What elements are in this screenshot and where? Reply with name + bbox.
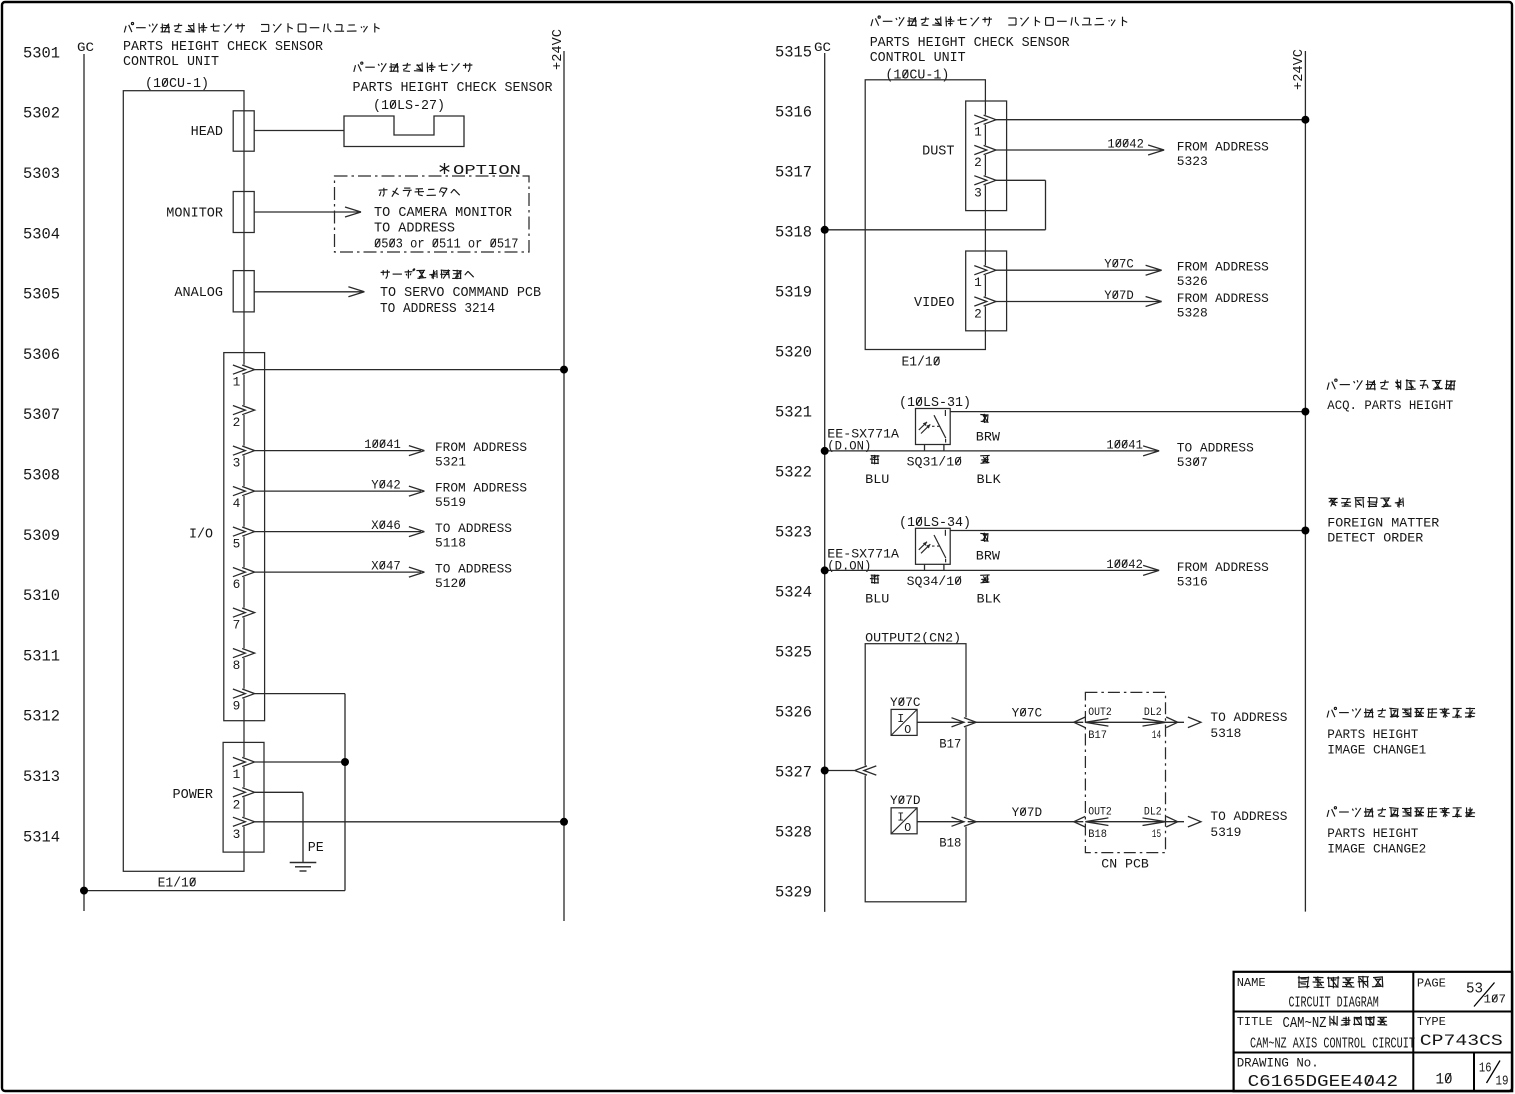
sensor 10LS-34 internal symbol — [919, 530, 946, 563]
connector I/O pin 6 chevron — [242, 567, 245, 577]
wire POWER pin3 to +24VC rail — [255, 821, 564, 823]
connector I/O pin 1 chevron — [242, 365, 245, 375]
svg-text:(D.ON): (D.ON) — [827, 559, 871, 573]
svg-text:SQ34/10: SQ34/10 — [907, 574, 963, 589]
svg-text:1: 1 — [974, 275, 982, 290]
wire Y07C inside CN PCB — [1085, 721, 1165, 723]
svg-text:0503 or 0511 or 0517: 0503 or 0511 or 0517 — [374, 238, 519, 253]
svg-text:(10CU-1): (10CU-1) — [145, 77, 209, 92]
svg-text:FROM ADDRESS: FROM ADDRESS — [1177, 260, 1269, 275]
svg-text:15: 15 — [1152, 829, 1161, 841]
svg-text:TITLE: TITLE — [1237, 1015, 1273, 1029]
svg-text:5328: 5328 — [775, 823, 812, 841]
svg-text:5314: 5314 — [23, 828, 60, 846]
connector HEAD box — [233, 111, 254, 151]
svg-text:IMAGE CHANGE1: IMAGE CHANGE1 — [1327, 743, 1426, 757]
svg-text:DETECT ORDER: DETECT ORDER — [1327, 531, 1423, 546]
connector VIDEO pin 1 chevron — [984, 265, 987, 275]
chevron Y07C at OUTPUT2 edge — [964, 717, 967, 727]
svg-text:CAM~NZ AXIS CONTROL CIRCUIT: CAM~NZ AXIS CONTROL CIRCUIT — [1250, 1037, 1415, 1053]
svg-text:BRW: BRW — [976, 431, 1001, 445]
svg-text:10041: 10041 — [1106, 438, 1143, 452]
power rail +24VC (left) vertical wire — [563, 51, 565, 921]
wire MONITOR to option box with arrowhead — [254, 211, 361, 213]
svg-text:O: O — [904, 822, 911, 835]
svg-text:PARTS HEIGHT CHECK SENSOR: PARTS HEIGHT CHECK SENSOR — [123, 40, 323, 55]
wire I/O pin1 to +24VC rail — [255, 369, 564, 371]
option label OPTION with reference-mark star — [440, 163, 450, 174]
svg-text:5321: 5321 — [435, 455, 466, 470]
svg-text:POWER: POWER — [173, 788, 214, 803]
option box Japanese text to-camera-monitor — [379, 188, 460, 197]
svg-text:DUST: DUST — [922, 145, 954, 160]
svg-text:5304: 5304 — [23, 225, 60, 243]
svg-text:B17: B17 — [1088, 730, 1107, 742]
svg-text:MONITOR: MONITOR — [166, 207, 223, 222]
right line-number column 5315-5329 — [775, 43, 812, 901]
output cell Y07C I/O box — [891, 709, 917, 735]
title block Japanese circuit diagram name — [1298, 976, 1383, 988]
svg-text:CONTROL UNIT: CONTROL UNIT — [123, 55, 219, 70]
svg-text:DRAWING No.: DRAWING No. — [1237, 1057, 1319, 1071]
power rail +24VC (right) vertical wire — [1304, 51, 1306, 912]
svg-text:2: 2 — [233, 415, 241, 430]
wire sensor 10LS-34 output signal 10042 — [825, 569, 1159, 571]
svg-text:Y07C: Y07C — [890, 696, 921, 710]
svg-text:(10CU-1): (10CU-1) — [885, 69, 949, 84]
svg-text:BRW: BRW — [976, 550, 1001, 564]
wire Y07D from I/O box through OUTPUT2 edge — [917, 821, 1083, 823]
svg-text:TO SERVO COMMAND PCB: TO SERVO COMMAND PCB — [380, 286, 541, 301]
svg-text:IMAGE CHANGE2: IMAGE CHANGE2 — [1327, 843, 1426, 857]
pcb CN PCB box (dash-dot) — [1085, 692, 1165, 852]
connector I/O pin 3 chevron — [242, 446, 245, 456]
svg-text:2: 2 — [974, 307, 982, 322]
connector ANALOG box — [233, 271, 254, 312]
svg-text:HEAD: HEAD — [191, 125, 223, 140]
svg-text:PARTS HEIGHT CHECK SENSOR: PARTS HEIGHT CHECK SENSOR — [870, 36, 1070, 51]
sensor 10LS-31 wire color label black — [980, 455, 990, 463]
svg-text:I: I — [897, 811, 904, 824]
junction node E1/10 on GC — [80, 887, 88, 895]
wire sensor 10LS-31 output signal 10041 — [825, 450, 1159, 452]
svg-text:Y07D: Y07D — [1012, 806, 1043, 820]
svg-text:5321: 5321 — [775, 403, 812, 421]
svg-text:14: 14 — [1152, 730, 1162, 742]
connector POWER pin 1 chevron — [242, 757, 245, 767]
connector DUST pin 3 chevron — [984, 175, 987, 185]
svg-text:O: O — [904, 724, 911, 737]
wire E1/10 horizontal to GC — [84, 890, 345, 892]
sensor 10LS-27 Japanese label — [354, 62, 473, 72]
svg-text:7: 7 — [233, 618, 241, 633]
svg-text:5311: 5311 — [23, 647, 60, 665]
junction node POWER pin1 / pin9 net — [341, 758, 349, 766]
svg-text:10042: 10042 — [1107, 137, 1144, 151]
svg-text:Y07D: Y07D — [890, 794, 921, 808]
svg-text:5316: 5316 — [775, 103, 812, 121]
connector I/O pin 8 chevron — [242, 648, 245, 658]
svg-text:5319: 5319 — [1210, 825, 1241, 840]
svg-text:5306: 5306 — [23, 346, 60, 364]
control unit 10CU-1 (right) outline box — [865, 80, 985, 350]
svg-text:5324: 5324 — [775, 583, 812, 601]
svg-text:5317: 5317 — [775, 163, 812, 181]
svg-text:B18: B18 — [939, 837, 961, 851]
svg-text:CIRCUIT DIAGRAM: CIRCUIT DIAGRAM — [1289, 996, 1379, 1012]
floating arrow to address (Y07D) — [1188, 816, 1201, 827]
connector DUST box — [966, 101, 1007, 211]
svg-text:107: 107 — [1484, 993, 1507, 1007]
svg-text:5318: 5318 — [775, 223, 812, 241]
svg-text:FROM ADDRESS: FROM ADDRESS — [1177, 291, 1269, 306]
wire I/O pin5 signal X046 — [255, 531, 421, 533]
svg-text:5316: 5316 — [1177, 574, 1208, 589]
junction node sensor 10LS-31 on +24VC — [1301, 408, 1309, 416]
sensor 10LS-34 body box — [916, 528, 951, 564]
title block horizontal dividers — [1234, 1011, 1513, 1013]
annotation Japanese image change (Y07D) — [1327, 807, 1475, 818]
option box (dash-dot) — [335, 176, 530, 252]
svg-text:B18: B18 — [1088, 829, 1107, 841]
svg-text:X046: X046 — [371, 519, 401, 533]
svg-text:5315: 5315 — [775, 43, 812, 61]
CN PCB exit arrows row Y07D — [1143, 818, 1166, 822]
connector DUST pin 1 chevron — [984, 115, 987, 125]
ground symbol PE — [290, 862, 317, 864]
svg-text:5322: 5322 — [775, 463, 812, 481]
wire sensor 10LS-31 brown to +24VC rail — [950, 411, 1305, 413]
wire stub Y07D after CN PCB — [1166, 821, 1185, 823]
svg-text:GC: GC — [814, 40, 831, 55]
svg-text:10: 10 — [1436, 1071, 1453, 1089]
chevron Y07D at OUTPUT2 edge — [964, 817, 967, 827]
svg-text:BLK: BLK — [977, 592, 1002, 606]
svg-text:FROM ADDRESS: FROM ADDRESS — [1177, 140, 1269, 155]
svg-text:5318: 5318 — [1210, 726, 1241, 741]
sensor 10LS-31 body box — [916, 409, 951, 445]
output cell Y07D I/O box — [891, 808, 917, 834]
svg-text:5309: 5309 — [23, 527, 60, 545]
junction node sensor 10LS-34 on GC — [821, 566, 829, 574]
sensor 10LS-34 wire color label brown — [980, 533, 988, 542]
svg-text:5313: 5313 — [23, 768, 60, 786]
svg-text:I/O: I/O — [189, 528, 213, 543]
connector DUST pin 2 chevron — [984, 145, 987, 155]
svg-text:5302: 5302 — [23, 105, 60, 123]
sensor 10LS-27 body outline — [344, 116, 464, 147]
svg-text:5301: 5301 — [23, 44, 60, 62]
title block vertical divider — [1412, 972, 1414, 1091]
net GC (left) vertical wire — [83, 54, 85, 911]
wire I/O pin6 signal X047 — [255, 571, 421, 573]
svg-text:Y07C: Y07C — [1012, 707, 1043, 721]
junction node I/O pin1 on +24VC — [560, 366, 568, 374]
svg-text:5310: 5310 — [23, 587, 60, 605]
connector POWER box — [223, 742, 264, 852]
svg-text:FROM ADDRESS: FROM ADDRESS — [1177, 560, 1269, 575]
wire POWER pin1 to E1/10 vertical — [255, 761, 345, 763]
CN PCB entry arrows row Y07C — [1074, 717, 1086, 728]
svg-text:PE: PE — [308, 841, 324, 856]
svg-text:5319: 5319 — [775, 283, 812, 301]
sensor 10LS-31 internal symbol — [919, 410, 946, 443]
wire DUST pin2 signal 10042 — [996, 149, 1164, 151]
svg-text:5328: 5328 — [1177, 306, 1208, 321]
annotation Japanese image change (Y07C) — [1327, 707, 1475, 718]
svg-text:53: 53 — [1466, 982, 1483, 998]
connector VIDEO box — [966, 251, 1007, 331]
svg-text:X047: X047 — [371, 560, 401, 574]
svg-text:BLK: BLK — [977, 473, 1002, 487]
svg-text:DL2: DL2 — [1144, 707, 1162, 719]
wire sensor 10LS-34 brown to +24VC rail — [950, 530, 1305, 532]
annotation Japanese foreign matter detect order — [1329, 497, 1404, 508]
svg-text:10042: 10042 — [1106, 558, 1143, 572]
svg-text:5303: 5303 — [23, 165, 60, 183]
svg-text:2: 2 — [233, 797, 241, 812]
svg-text:PAGE: PAGE — [1417, 977, 1446, 991]
svg-text:8: 8 — [233, 658, 241, 673]
wire I/O pin3 signal 10041 — [255, 450, 421, 452]
wire DUST pin3 to GC (row 5318) — [996, 179, 1046, 181]
svg-text:16: 16 — [1479, 1062, 1492, 1077]
svg-text:5326: 5326 — [775, 703, 812, 721]
svg-text:5308: 5308 — [23, 467, 60, 485]
sensor 10LS-34 pin stubs — [924, 564, 926, 570]
wire I/O pin4 signal Y042 — [255, 490, 421, 492]
svg-text:PARTS HEIGHT CHECK SENSOR: PARTS HEIGHT CHECK SENSOR — [353, 81, 553, 96]
title block row3 vertical divider — [1473, 1053, 1475, 1092]
svg-text:5305: 5305 — [23, 286, 60, 304]
floating arrow to address (Y07C) — [1188, 717, 1201, 728]
title block outline — [1234, 972, 1513, 1091]
sensor 10LS-31 wire color label blue — [870, 455, 880, 464]
svg-text:1: 1 — [974, 125, 982, 140]
svg-text:5323: 5323 — [775, 523, 812, 541]
svg-text:PARTS HEIGHT: PARTS HEIGHT — [1327, 827, 1418, 841]
svg-text:GC: GC — [77, 40, 94, 55]
svg-text:CN PCB: CN PCB — [1101, 857, 1149, 872]
svg-text:Y042: Y042 — [371, 479, 401, 493]
svg-text:BLU: BLU — [865, 473, 889, 487]
svg-text:B17: B17 — [939, 737, 961, 751]
wire ANALOG to servo command pcb with arrowhead — [254, 291, 364, 293]
svg-text:5: 5 — [233, 537, 241, 552]
svg-text:10041: 10041 — [364, 438, 401, 452]
svg-text:5307: 5307 — [23, 406, 60, 424]
svg-text:5118: 5118 — [435, 536, 466, 551]
svg-text:TO ADDRESS: TO ADDRESS — [435, 521, 512, 536]
junction node POWER pin3 on +24VC — [560, 818, 568, 826]
svg-text:19: 19 — [1496, 1075, 1509, 1090]
svg-text:C6165DGEE4042: C6165DGEE4042 — [1248, 1073, 1399, 1091]
svg-text:CAM~NZ: CAM~NZ — [1283, 1016, 1327, 1032]
svg-text:9: 9 — [233, 699, 241, 714]
left line-number column 5301-5314 — [23, 44, 60, 846]
junction node sensor 10LS-31 on GC — [821, 447, 829, 455]
annotation Japanese acq parts height — [1327, 379, 1456, 390]
svg-text:5307: 5307 — [1177, 455, 1208, 470]
CN PCB entry arrows row Y07D — [1074, 816, 1086, 827]
junction node DUST pin3 on GC — [821, 226, 829, 234]
svg-text:I: I — [897, 713, 904, 726]
svg-text:CP743CS: CP743CS — [1420, 1032, 1503, 1050]
svg-text:5327: 5327 — [775, 763, 812, 781]
connector MONITOR box — [233, 192, 254, 233]
svg-text:TO ADDRESS: TO ADDRESS — [1210, 809, 1287, 824]
sensor 10LS-34 wire color label blue — [870, 574, 880, 583]
svg-text:5519: 5519 — [435, 495, 466, 510]
connector I/O pin 5 chevron — [242, 527, 245, 537]
connector I/O pin 4 chevron — [242, 486, 245, 496]
svg-text:DL2: DL2 — [1144, 806, 1162, 818]
svg-text:PARTS HEIGHT: PARTS HEIGHT — [1327, 728, 1418, 742]
wire Y07C from I/O box through OUTPUT2 edge — [917, 721, 1083, 723]
svg-text:SQ31/10: SQ31/10 — [907, 454, 963, 469]
svg-text:CONTROL UNIT: CONTROL UNIT — [870, 51, 966, 66]
connector I/O box — [224, 353, 265, 721]
connector I/O pin 2 chevron — [242, 405, 245, 415]
svg-text:VIDEO: VIDEO — [914, 296, 955, 311]
wire Y07D inside CN PCB — [1085, 821, 1165, 823]
svg-text:OPTION: OPTION — [453, 164, 521, 179]
connector I/O pin 7 chevron — [242, 608, 245, 618]
sensor 10LS-31 pin stubs — [924, 445, 926, 451]
control unit 10CU-1 (left) Japanese title — [124, 23, 379, 34]
svg-text:FOREIGN MATTER: FOREIGN MATTER — [1327, 516, 1439, 531]
svg-text:ACQ. PARTS HEIGHT: ACQ. PARTS HEIGHT — [1327, 398, 1453, 413]
svg-text:OUT2: OUT2 — [1088, 806, 1112, 818]
svg-text:5323: 5323 — [1177, 154, 1208, 169]
svg-text:5325: 5325 — [775, 643, 812, 661]
junction node sensor 10LS-34 on +24VC — [1301, 527, 1309, 535]
svg-text:3: 3 — [233, 456, 241, 471]
svg-text:Y07D: Y07D — [1104, 289, 1134, 303]
connector POWER pin 3 chevron — [242, 817, 245, 827]
control unit 10CU-1 (right) Japanese title — [871, 16, 1127, 27]
svg-text:3: 3 — [974, 185, 982, 200]
svg-text:OUT2: OUT2 — [1088, 707, 1112, 719]
svg-text:1: 1 — [233, 767, 241, 782]
svg-text:BLU: BLU — [865, 592, 889, 606]
svg-text:5329: 5329 — [775, 883, 812, 901]
servo command Japanese label — [381, 269, 474, 279]
sensor 10LS-31 wire color label brown — [980, 414, 988, 423]
wire row 5327 GC to OUTPUT2 with chevrons — [825, 770, 854, 772]
svg-text:TO ADDRESS: TO ADDRESS — [435, 562, 512, 577]
junction node DUST pin1 on +24VC — [1301, 116, 1309, 124]
connector VIDEO pin 2 chevron — [984, 297, 987, 307]
svg-text:NAME: NAME — [1237, 976, 1266, 990]
sensor 10LS-34 wire color label black — [980, 575, 990, 583]
svg-text:3: 3 — [233, 827, 241, 842]
wire VIDEO pin2 signal Y07D — [996, 301, 1162, 303]
svg-text:FROM ADDRESS: FROM ADDRESS — [435, 440, 527, 455]
connector POWER pin 2 chevron — [242, 787, 245, 797]
svg-text:6: 6 — [233, 577, 241, 592]
svg-text:TO CAMERA MONITOR: TO CAMERA MONITOR — [374, 206, 512, 221]
svg-text:TO ADDRESS: TO ADDRESS — [1210, 710, 1287, 725]
svg-text:TO ADDRESS 3214: TO ADDRESS 3214 — [380, 302, 495, 317]
svg-text:1: 1 — [233, 375, 241, 390]
svg-text:ANALOG: ANALOG — [174, 286, 223, 301]
svg-text:5326: 5326 — [1177, 274, 1208, 289]
wire POWER pin2 to PE ground — [255, 791, 303, 793]
svg-text:Y07C: Y07C — [1104, 258, 1134, 272]
svg-text:5312: 5312 — [23, 708, 60, 726]
wire VIDEO pin1 signal Y07C — [996, 269, 1162, 271]
svg-text:5320: 5320 — [775, 343, 812, 361]
net GC (right) vertical wire — [824, 53, 826, 912]
wire I/O pin9 to E1/10 net — [255, 693, 345, 695]
svg-text:2: 2 — [974, 155, 982, 170]
CN PCB exit arrows row Y07C — [1143, 719, 1166, 723]
control unit 10CU-1 (left) outline box — [123, 91, 244, 872]
connector I/O pin 9 chevron — [242, 689, 245, 699]
junction node row 5327 on GC — [821, 767, 829, 775]
wire stub Y07C after CN PCB — [1166, 721, 1185, 723]
svg-text:TO ADDRESS: TO ADDRESS — [374, 222, 455, 237]
svg-text:FROM ADDRESS: FROM ADDRESS — [435, 481, 527, 496]
wire HEAD to sensor 10LS-27 — [254, 130, 344, 132]
connector OUTPUT2(CN2) outline box — [865, 644, 966, 902]
svg-text:TYPE: TYPE — [1417, 1015, 1446, 1029]
svg-text:4: 4 — [233, 496, 241, 511]
wire DUST pin1 to +24VC rail — [996, 119, 1305, 121]
svg-text:TO ADDRESS: TO ADDRESS — [1177, 440, 1254, 455]
svg-text:(10LS-27): (10LS-27) — [373, 99, 445, 114]
chevron row 5327 pointing left — [864, 766, 867, 776]
